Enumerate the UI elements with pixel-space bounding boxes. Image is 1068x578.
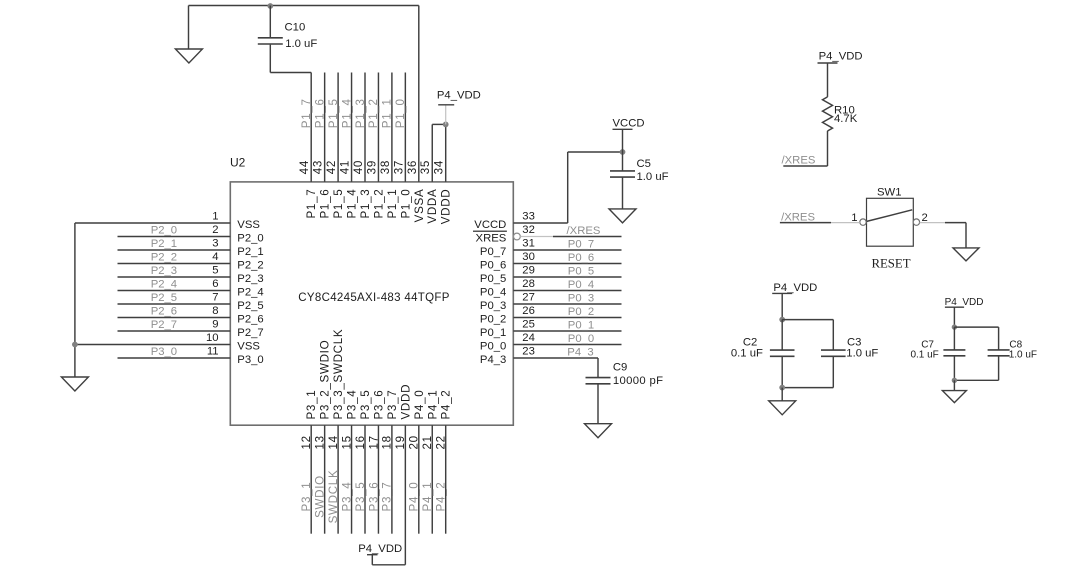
svg-text:P3_0: P3_0 — [237, 354, 263, 366]
svg-text:VCCD: VCCD — [474, 219, 506, 231]
svg-text:11: 11 — [207, 346, 219, 358]
svg-text:P2_2: P2_2 — [151, 252, 177, 264]
svg-text:25: 25 — [522, 319, 535, 331]
svg-text:P2_2: P2_2 — [237, 260, 263, 272]
svg-text:P1_0: P1_0 — [399, 189, 412, 219]
svg-text:1.0 uF: 1.0 uF — [1009, 349, 1037, 360]
svg-text:P3_4: P3_4 — [346, 390, 359, 420]
svg-text:P4_2: P4_2 — [440, 390, 453, 420]
svg-text:P4_VDD: P4_VDD — [358, 543, 402, 555]
svg-text:P1_4: P1_4 — [346, 189, 359, 219]
svg-text:6: 6 — [212, 278, 218, 290]
svg-text:13: 13 — [313, 435, 326, 449]
svg-text:P2_6: P2_6 — [151, 306, 177, 318]
svg-text:P0_2: P0_2 — [480, 314, 506, 326]
svg-text:P3_2_SWDIO: P3_2_SWDIO — [319, 340, 332, 420]
svg-text:P4_1: P4_1 — [421, 482, 434, 512]
svg-text:P1_0: P1_0 — [394, 98, 407, 128]
svg-text:CY8C4245AXI-483 44TQFP: CY8C4245AXI-483 44TQFP — [298, 292, 450, 304]
svg-text:26: 26 — [522, 305, 535, 317]
svg-text:P2_6: P2_6 — [237, 314, 263, 326]
svg-text:VSSA: VSSA — [413, 189, 426, 223]
svg-text:/XRES: /XRES — [567, 225, 601, 237]
svg-text:P0_1: P0_1 — [568, 319, 594, 331]
svg-text:P2_0: P2_0 — [237, 233, 263, 245]
svg-text:34: 34 — [433, 160, 446, 174]
svg-text:C10: C10 — [285, 22, 306, 34]
svg-text:P0_7: P0_7 — [568, 238, 594, 250]
svg-text:P3_5: P3_5 — [359, 390, 372, 420]
svg-text:10: 10 — [206, 332, 219, 344]
svg-text:16: 16 — [354, 435, 367, 449]
svg-text:33: 33 — [522, 211, 535, 223]
svg-text:18: 18 — [381, 435, 394, 449]
svg-text:P3_4: P3_4 — [340, 482, 353, 512]
svg-text:P3_6: P3_6 — [367, 482, 380, 512]
svg-text:5: 5 — [212, 265, 218, 277]
svg-text:P1_5: P1_5 — [332, 189, 345, 219]
svg-text:P2_3: P2_3 — [151, 265, 177, 277]
svg-text:P2_4: P2_4 — [237, 287, 263, 299]
svg-text:P0_3: P0_3 — [480, 300, 506, 312]
svg-text:P4_VDD: P4_VDD — [773, 282, 817, 294]
svg-text:/XRES: /XRES — [782, 155, 816, 167]
svg-text:P1_7: P1_7 — [300, 98, 313, 128]
svg-text:4.7K: 4.7K — [834, 113, 858, 125]
svg-text:XRES: XRES — [476, 233, 507, 245]
svg-text:P3_1: P3_1 — [300, 482, 313, 512]
svg-text:P4_VDD: P4_VDD — [819, 51, 863, 63]
svg-text:P0_2: P0_2 — [568, 306, 594, 318]
svg-text:C9: C9 — [613, 361, 627, 373]
svg-text:21: 21 — [421, 435, 434, 449]
svg-text:P2_5: P2_5 — [151, 292, 177, 304]
svg-text:VDDA: VDDA — [426, 189, 439, 224]
svg-text:P2_1: P2_1 — [151, 238, 177, 250]
svg-text:7: 7 — [212, 292, 218, 304]
svg-text:P1_1: P1_1 — [381, 98, 394, 128]
svg-text:29: 29 — [522, 265, 535, 277]
svg-text:P3_7: P3_7 — [381, 482, 394, 512]
svg-text:P2_7: P2_7 — [237, 327, 263, 339]
svg-text:P1_6: P1_6 — [313, 98, 326, 128]
svg-text:P1_6: P1_6 — [319, 189, 332, 219]
svg-text:2: 2 — [922, 212, 928, 224]
svg-text:P0_0: P0_0 — [480, 341, 506, 353]
svg-text:P0_6: P0_6 — [480, 260, 506, 272]
svg-text:41: 41 — [339, 160, 352, 174]
svg-text:P1_7: P1_7 — [305, 189, 318, 219]
svg-text:P0_4: P0_4 — [480, 287, 506, 299]
svg-text:P3_1: P3_1 — [305, 390, 318, 420]
svg-text:1: 1 — [851, 212, 857, 224]
svg-text:P1_3: P1_3 — [354, 98, 367, 128]
svg-text:0.1 uF: 0.1 uF — [910, 349, 938, 360]
svg-text:10000 pF: 10000 pF — [613, 375, 664, 387]
svg-text:P4_3: P4_3 — [480, 354, 506, 366]
svg-text:3: 3 — [212, 238, 218, 250]
svg-text:P4_3: P4_3 — [567, 346, 593, 358]
svg-text:44: 44 — [298, 160, 311, 174]
svg-text:VSS: VSS — [237, 341, 260, 353]
svg-text:23: 23 — [522, 346, 535, 358]
svg-text:P0_5: P0_5 — [568, 265, 594, 277]
svg-text:39: 39 — [365, 160, 378, 174]
svg-text:C5: C5 — [637, 158, 651, 170]
svg-text:P2_0: P2_0 — [151, 225, 177, 237]
svg-text:P3_3_SWDCLK: P3_3_SWDCLK — [332, 329, 345, 420]
svg-text:22: 22 — [435, 435, 448, 449]
svg-text:1.0 uF: 1.0 uF — [846, 348, 878, 360]
svg-text:P2_3: P2_3 — [237, 273, 263, 285]
svg-text:32: 32 — [522, 224, 535, 236]
svg-text:SWDIO: SWDIO — [313, 475, 326, 518]
svg-text:38: 38 — [379, 160, 392, 174]
svg-text:9: 9 — [212, 319, 218, 331]
svg-text:30: 30 — [522, 251, 535, 263]
svg-text:1: 1 — [212, 211, 218, 223]
svg-text:U2: U2 — [230, 155, 246, 169]
svg-text:P2_5: P2_5 — [237, 300, 263, 312]
svg-text:P2_7: P2_7 — [151, 319, 177, 331]
svg-text:19: 19 — [394, 435, 407, 449]
svg-text:P4_2: P4_2 — [435, 482, 448, 512]
svg-text:36: 36 — [406, 160, 419, 174]
svg-text:12: 12 — [300, 435, 313, 449]
svg-text:24: 24 — [522, 332, 535, 344]
svg-text:20: 20 — [408, 435, 421, 449]
svg-text:P1_1: P1_1 — [386, 189, 399, 219]
svg-text:2: 2 — [212, 224, 218, 236]
svg-text:17: 17 — [367, 435, 380, 449]
svg-text:31: 31 — [522, 238, 535, 250]
svg-text:27: 27 — [522, 292, 535, 304]
svg-text:P4_0: P4_0 — [413, 390, 426, 420]
svg-text:42: 42 — [325, 160, 338, 174]
svg-text:15: 15 — [340, 435, 353, 449]
svg-text:VSS: VSS — [237, 219, 260, 231]
svg-text:P1_2: P1_2 — [372, 189, 385, 219]
svg-text:1.0 uF: 1.0 uF — [285, 38, 317, 50]
svg-text:P0_3: P0_3 — [568, 292, 594, 304]
svg-text:28: 28 — [522, 278, 535, 290]
svg-text:VDDD: VDDD — [440, 189, 453, 225]
svg-text:P4_VDD: P4_VDD — [437, 90, 481, 102]
svg-text:P4_1: P4_1 — [426, 390, 439, 420]
svg-text:SW1: SW1 — [877, 186, 901, 198]
svg-text:35: 35 — [419, 160, 432, 174]
svg-text:P3_5: P3_5 — [354, 482, 367, 512]
svg-text:P0_0: P0_0 — [568, 333, 594, 345]
svg-text:VDDD: VDDD — [399, 384, 412, 420]
svg-text:P0_6: P0_6 — [568, 252, 594, 264]
svg-text:4: 4 — [212, 251, 218, 263]
svg-text:P0_5: P0_5 — [480, 273, 506, 285]
svg-text:40: 40 — [352, 160, 365, 174]
svg-text:P3_0: P3_0 — [151, 346, 177, 358]
svg-text:P4_VDD: P4_VDD — [945, 297, 984, 308]
svg-text:P1_2: P1_2 — [367, 98, 380, 128]
svg-text:P0_7: P0_7 — [480, 246, 506, 258]
svg-text:P2_1: P2_1 — [237, 246, 263, 258]
svg-text:P0_1: P0_1 — [480, 327, 506, 339]
svg-text:P0_4: P0_4 — [568, 279, 594, 291]
svg-text:/XRES: /XRES — [781, 212, 815, 224]
svg-text:43: 43 — [312, 160, 325, 174]
svg-text:1.0 uF: 1.0 uF — [637, 171, 669, 183]
svg-text:RESET: RESET — [871, 257, 910, 271]
svg-text:P1_3: P1_3 — [359, 189, 372, 219]
svg-text:P2_4: P2_4 — [151, 279, 177, 291]
svg-text:8: 8 — [212, 305, 218, 317]
svg-text:SWDCLK: SWDCLK — [327, 470, 340, 524]
svg-text:P3_6: P3_6 — [372, 390, 385, 420]
svg-text:0.1 uF: 0.1 uF — [731, 348, 763, 360]
svg-text:P1_5: P1_5 — [327, 98, 340, 128]
svg-text:VCCD: VCCD — [613, 117, 645, 129]
svg-text:P1_4: P1_4 — [340, 98, 353, 128]
svg-text:37: 37 — [392, 160, 405, 174]
svg-text:P3_7: P3_7 — [386, 390, 399, 420]
svg-text:14: 14 — [327, 435, 340, 449]
svg-text:P4_0: P4_0 — [408, 482, 421, 512]
